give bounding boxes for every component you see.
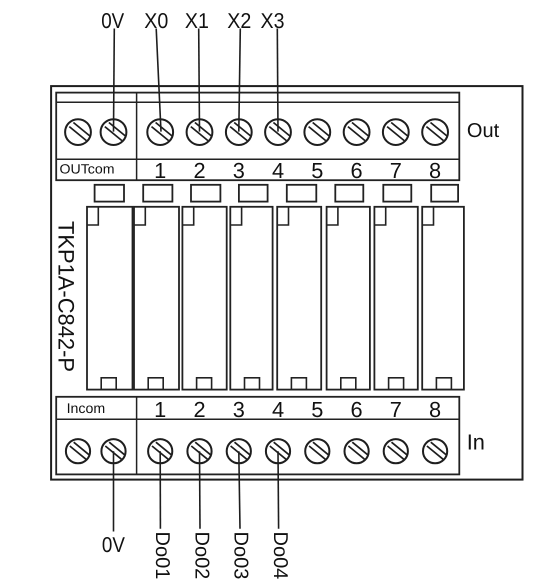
wire 0V bottom <box>113 451 115 531</box>
wire X0 <box>156 29 161 132</box>
screw Out8 <box>422 119 448 145</box>
screw In6 <box>345 439 369 463</box>
screw Incom-b <box>101 439 125 463</box>
wire X2 <box>239 29 241 132</box>
relay block K6 <box>327 207 370 390</box>
screw Out5 <box>304 119 330 145</box>
screw In2 <box>187 439 211 463</box>
relay block K1 <box>87 207 133 390</box>
svg-text:5: 5 <box>311 397 323 422</box>
connector tab K5 <box>287 185 317 202</box>
svg-text:6: 6 <box>351 397 363 422</box>
svg-text:2: 2 <box>193 158 205 183</box>
screw In5 <box>305 439 329 463</box>
wire Do04 <box>277 451 280 529</box>
svg-text:1: 1 <box>154 397 166 422</box>
terminal numbers 1-8 (top row) <box>154 158 441 183</box>
relay block K8 <box>422 207 464 390</box>
relay block K7 <box>374 207 417 390</box>
svg-text:3: 3 <box>233 397 245 422</box>
svg-text:2: 2 <box>193 397 205 422</box>
svg-text:0V: 0V <box>102 533 126 557</box>
wire Do02 <box>199 451 202 529</box>
screw OUTcom-b <box>101 119 127 145</box>
svg-text:In: In <box>467 430 485 455</box>
bottom strip label-row line <box>56 418 459 420</box>
screw In8 <box>423 439 447 463</box>
svg-text:3: 3 <box>233 158 245 183</box>
svg-text:Do02: Do02 <box>190 532 212 580</box>
svg-text:4: 4 <box>272 158 284 183</box>
wire Do03 <box>239 451 240 529</box>
svg-text:5: 5 <box>311 158 323 183</box>
svg-text:6: 6 <box>351 158 363 183</box>
top strip rail line <box>56 101 459 103</box>
svg-text:1: 1 <box>154 158 166 183</box>
svg-text:X2: X2 <box>227 9 251 33</box>
svg-text:X3: X3 <box>261 9 285 33</box>
top strip OUTcom divider <box>136 93 138 181</box>
svg-text:X1: X1 <box>185 9 209 33</box>
svg-text:0V: 0V <box>101 9 125 33</box>
screw In1 <box>148 439 172 463</box>
svg-text:4: 4 <box>272 397 284 422</box>
screw In3 <box>227 439 251 463</box>
screw Incom-a <box>66 439 90 463</box>
bottom terminal screws <box>66 439 447 463</box>
svg-text:7: 7 <box>390 397 402 422</box>
wire X3 <box>276 29 279 132</box>
connector tab K1 <box>95 185 124 202</box>
svg-text:Do01: Do01 <box>151 532 173 580</box>
svg-text:X0: X0 <box>144 9 168 33</box>
svg-text:Do04: Do04 <box>269 532 291 580</box>
connector tab K8 <box>431 185 458 202</box>
svg-text:OUTcom: OUTcom <box>60 162 115 177</box>
svg-text:8: 8 <box>429 158 441 183</box>
connector tab K7 <box>383 185 411 202</box>
board outline <box>51 86 522 480</box>
relay block K5 <box>277 207 321 390</box>
connector tab K2 <box>143 185 172 202</box>
relay block K3 <box>182 207 226 390</box>
svg-text:TKP1A-C842-P: TKP1A-C842-P <box>54 221 79 372</box>
relay block K2 <box>134 207 179 390</box>
screw Out6 <box>344 119 370 145</box>
screw OUTcom-a <box>65 119 91 145</box>
wire Do01 <box>159 451 161 529</box>
screw Out7 <box>383 119 409 145</box>
terminal numbers 1-8 (bottom row) <box>154 397 441 422</box>
screw Out2 <box>187 119 213 145</box>
screw In4 <box>266 439 290 463</box>
terminal strip Out (top) <box>56 93 459 181</box>
screw Out3 <box>226 119 252 145</box>
svg-text:8: 8 <box>429 397 441 422</box>
screw Out4 <box>265 119 291 145</box>
svg-text:Incom: Incom <box>67 400 106 416</box>
connector tab K4 <box>239 185 268 202</box>
screw In7 <box>384 439 408 463</box>
svg-text:Out: Out <box>467 120 500 142</box>
top strip label-row line <box>56 158 459 160</box>
screw Out1 <box>147 119 173 145</box>
top terminal screws <box>65 119 448 145</box>
bottom strip Incom divider <box>136 397 138 475</box>
wire 0V top <box>113 29 116 132</box>
svg-text:Do03: Do03 <box>230 532 252 580</box>
connector tab K6 <box>335 185 363 202</box>
terminal strip In (bottom) <box>56 397 459 475</box>
relay block K4 <box>230 207 272 390</box>
wire X1 <box>198 29 201 132</box>
svg-text:7: 7 <box>390 158 402 183</box>
connector tab K3 <box>191 185 220 202</box>
